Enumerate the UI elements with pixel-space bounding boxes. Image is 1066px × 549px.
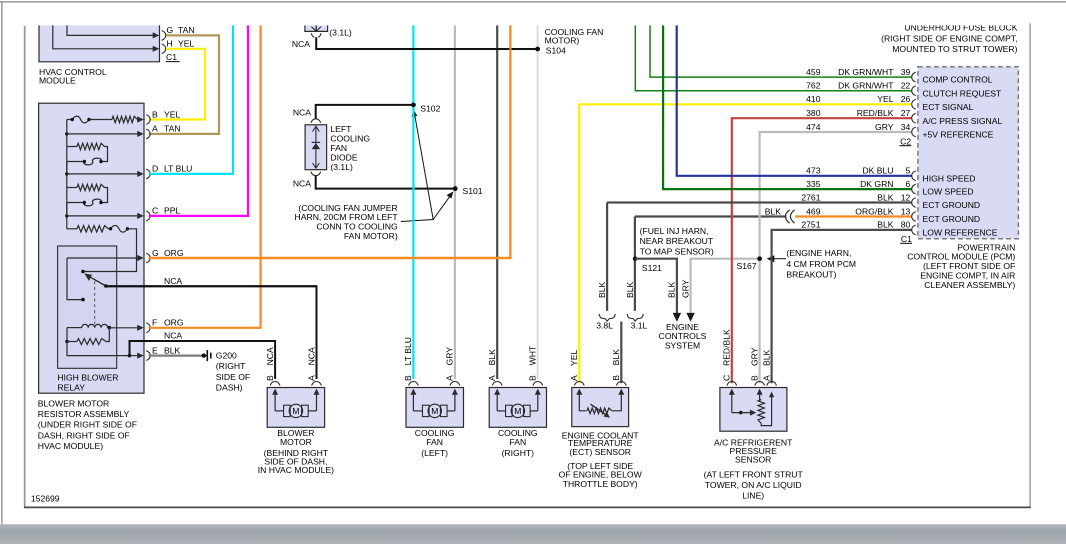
svg-text:ECT SIGNAL: ECT SIGNAL [923,102,974,112]
svg-text:80: 80 [901,220,911,230]
wire DK GRN/WHT 459 PCM39 [650,23,912,77]
pin arc under connector [311,33,314,37]
svg-text:B: B [749,375,759,381]
wire TAN [149,35,219,133]
PCM pin 6 [912,184,916,194]
splice S102 [411,103,416,108]
svg-text:DASH): DASH) [216,383,243,393]
resistor R2 [67,146,77,148]
svg-text:COOLING: COOLING [330,133,370,143]
svg-text:LOW SPEED: LOW SPEED [923,187,974,197]
svg-text:C: C [722,375,732,381]
svg-text:ECT GROUND: ECT GROUND [923,214,981,224]
svg-text:(FUEL INJ HARN,: (FUEL INJ HARN, [640,226,709,236]
connector (3.1L) top [305,21,328,31]
svg-text:M: M [514,406,521,416]
PCM pin 13 [912,212,916,222]
HVAC CONTROL MODULE U-HVAC [39,21,160,61]
svg-text:762: 762 [806,81,821,91]
wire DK BLU 473 PCM5 [677,23,912,175]
svg-text:RED/BLK: RED/BLK [722,329,732,366]
svg-text:FAN: FAN [426,437,443,447]
wire HVAC pin G internal [67,23,154,35]
svg-text:C1: C1 [901,234,912,244]
svg-text:459: 459 [806,67,821,77]
svg-text:NCA: NCA [164,331,182,341]
svg-text:M: M [431,406,438,416]
window left border [1,2,3,524]
high blower relay box [58,246,117,368]
svg-text:DK GRN/WHT: DK GRN/WHT [838,67,894,77]
svg-text:DK GRN/WHT: DK GRN/WHT [838,81,894,91]
svg-text:NCA: NCA [265,347,275,365]
svg-text:(3.1L): (3.1L) [329,27,352,37]
wire DK GRN 335 PCM6 [663,23,912,189]
svg-text:S121: S121 [642,263,662,273]
cooling fan right motor M3 [489,388,546,428]
svg-text:HVAC MODULE): HVAC MODULE) [38,441,103,451]
pin arc resistor assembly [146,129,150,139]
PCM pin 39 [912,72,916,82]
svg-text:C1: C1 [166,52,177,62]
svg-text:39: 39 [901,67,911,77]
wire BLK pin E to G200 [149,355,204,357]
wire BLK 2761 vertical to 3.8L [606,203,608,311]
pin H of HVAC [162,44,166,54]
wire ORG to pin F [149,23,261,327]
wire row D [67,173,137,175]
motor symbol [289,404,302,417]
wire LT BLU cooling fan left B [412,23,414,379]
svg-text:BLK: BLK [597,281,607,298]
splice S167 [757,256,762,261]
svg-text:YEL: YEL [164,109,180,119]
svg-text:(ENGINE HARN,: (ENGINE HARN, [786,248,851,258]
wire BLK S121 vertical to 3.1L [634,217,636,311]
svg-text:DASH, RIGHT SIDE OF: DASH, RIGHT SIDE OF [38,430,130,440]
wire NCA diode top to S102 [316,105,414,119]
svg-text:5: 5 [906,166,911,176]
pin arc resistor assembly [146,115,150,125]
svg-text:G: G [167,25,174,35]
svg-text:335: 335 [806,179,821,189]
svg-text:G200: G200 [216,351,237,361]
svg-text:A: A [306,375,316,381]
svg-text:474: 474 [806,122,821,132]
svg-text:(RIGHT SIDE OF ENGINE COMPT,: (RIGHT SIDE OF ENGINE COMPT, [881,33,1017,43]
svg-text:MOTOR: MOTOR [280,437,312,447]
relay switch blade [88,276,106,286]
relay bottom bus to pin E [67,342,130,356]
svg-text:LEFT: LEFT [330,124,352,134]
resistor R4 bottom chain [67,228,77,230]
pin arc resistor assembly [146,351,150,361]
svg-text:LINE): LINE) [742,491,764,501]
splice S121 [633,256,638,261]
svg-text:473: 473 [806,166,821,176]
svg-text:A: A [445,375,455,381]
svg-text:NCA: NCA [164,276,182,286]
svg-text:SENSOR: SENSOR [735,454,771,464]
wire BLK 2751 PCM80 to AC A [772,230,912,383]
svg-text:3.1L: 3.1L [631,321,648,331]
wire HVAC pin H internal [53,23,154,48]
wire GRY S167 to engine controls arrow [691,259,760,314]
window top border [0,1,1066,3]
svg-text:CLEANER ASSEMBLY): CLEANER ASSEMBLY) [924,280,1015,290]
svg-text:A/C PRESS SIGNAL: A/C PRESS SIGNAL [923,116,1003,126]
svg-text:IN HVAC MODULE): IN HVAC MODULE) [258,465,334,475]
svg-text:GRY: GRY [875,122,894,132]
wire LT BLU from pin D [149,23,233,174]
svg-text:BLK: BLK [487,349,497,366]
svg-text:A: A [152,124,158,134]
svg-text:BLK: BLK [765,206,782,216]
PCM pin 34 [912,127,916,137]
svg-text:YEL: YEL [569,350,579,366]
svg-text:ORG/BLK: ORG/BLK [855,206,893,216]
svg-text:S101: S101 [463,186,483,196]
svg-text:(AT LEFT FRONT STRUT: (AT LEFT FRONT STRUT [704,469,804,479]
A/C refrigerant pressure sensor box [720,388,787,432]
svg-text:GRY: GRY [680,279,690,298]
resistor network internal bus [66,120,68,147]
svg-text:B: B [265,375,275,381]
svg-text:THROTTLE BODY): THROTTLE BODY) [563,479,638,489]
relay switch wire pin G [67,257,137,259]
svg-text:B: B [611,375,621,381]
svg-text:NEAR BREAKOUT: NEAR BREAKOUT [640,236,714,246]
svg-text:12: 12 [901,192,911,202]
thermal limiter F2 [84,158,102,165]
blower motor M1 [267,388,324,428]
svg-text:S102: S102 [420,104,440,114]
AC sensor internal [731,393,733,413]
pin arc resistor assembly [146,253,150,263]
svg-text:BLK: BLK [164,345,181,355]
blower motor resistor assembly box [39,103,144,393]
svg-text:GRY: GRY [445,347,455,366]
svg-text:A: A [569,375,579,381]
svg-text:BLK: BLK [611,349,621,366]
inline connector on 469 [785,210,789,223]
PCM box [918,67,1019,239]
pin arc resistor assembly [146,211,150,221]
svg-text:MODULE: MODULE [39,76,76,86]
svg-text:22: 22 [901,81,911,91]
svg-text:ORG: ORG [164,248,184,258]
svg-text:2751: 2751 [801,220,820,230]
svg-text:M: M [292,406,299,416]
thermistor arrow [591,404,608,415]
relay resistor [66,328,68,342]
wire BLK 469 left segment [635,215,786,217]
PCM pin 12 [912,198,916,208]
pin arc resistor assembly [146,169,150,179]
svg-text:TO MAP SENSOR): TO MAP SENSOR) [640,247,714,257]
ECT internal [579,393,586,411]
svg-text:34: 34 [901,122,911,132]
relay coil [67,327,82,329]
svg-text:C: C [152,206,158,216]
svg-text:(LEFT): (LEFT) [421,448,448,458]
svg-text:DIODE: DIODE [330,153,357,163]
svg-text:PPL: PPL [164,206,180,216]
PCM pin 5 [912,171,916,181]
engine harn caption + arrow [774,258,786,260]
arrow to engine controls BLK [673,313,681,322]
wire overlap redraw: NCA relay to motor A [106,285,317,287]
schematic frame left [24,26,26,508]
svg-text:152699: 152699 [31,493,60,503]
svg-text:A: A [761,375,771,381]
svg-text:COMP CONTROL: COMP CONTROL [923,75,993,85]
wire pin F from coil [109,327,137,329]
splice S104 [535,47,540,52]
svg-text:CLUTCH REQUEST: CLUTCH REQUEST [923,88,1003,98]
left cooling fan diode box [305,125,327,170]
wire BLK brace to ECT B [620,322,622,384]
svg-text:RESISTOR ASSEMBLY: RESISTOR ASSEMBLY [38,409,130,419]
thermal limiter F1 row B [67,119,73,121]
resistor R3 [67,187,77,189]
wire BLK S121 to engine controls arrow [635,259,677,314]
relay actuation dashed link [94,281,96,324]
ground G200 [202,353,206,357]
arrow to engine controls GRY [686,313,694,322]
svg-text:NCA: NCA [293,179,311,189]
svg-text:BLK: BLK [877,220,894,230]
svg-text:469: 469 [806,206,821,216]
NCA wire from E-bus to blower motor B [130,341,276,379]
svg-text:YEL: YEL [877,94,893,104]
wire NCA to S104 [316,37,537,49]
pin arc resistor assembly [146,323,150,333]
svg-text:LOW REFERENCE: LOW REFERENCE [923,228,998,238]
svg-text:(RIGHT: (RIGHT [216,361,246,371]
svg-text:G: G [152,248,159,258]
svg-text:E: E [152,345,158,355]
PCM pin 27 [912,113,916,123]
svg-text:3.8L: 3.8L [596,321,613,331]
svg-text:TOWER, ON A/C LIQUID: TOWER, ON A/C LIQUID [705,480,802,490]
svg-text:A: A [487,375,497,381]
svg-text:BLOWER MOTOR: BLOWER MOTOR [38,398,109,408]
svg-text:FAN: FAN [509,437,526,447]
thermal limiter F3 [84,199,102,206]
svg-text:GRY: GRY [749,347,759,366]
svg-text:6: 6 [906,179,911,189]
pin G of HVAC [162,31,166,41]
PCM pin 22 [912,86,916,96]
cooling fan left motor M2 [406,388,464,428]
svg-text:FAN MOTOR): FAN MOTOR) [344,231,398,241]
diode symbol D1 [315,127,317,168]
ECT sensor box [572,388,629,427]
wire BLK cooling fan right A [496,23,498,379]
svg-text:BREAKOUT): BREAKOUT) [786,269,836,279]
brace 3.1L [627,314,643,321]
motor symbol [428,404,441,417]
wire WHT cooling fan right B [536,23,538,379]
svg-text:MOTOR): MOTOR) [545,36,580,46]
svg-text:B: B [403,375,413,381]
motor symbol [511,404,524,417]
schematic frame right [1029,23,1031,507]
svg-text:B: B [152,109,158,119]
svg-text:LT BLU: LT BLU [164,164,192,174]
caption pointer lines [401,114,433,221]
svg-text:ECT GROUND: ECT GROUND [923,200,981,210]
svg-text:(3.1L): (3.1L) [330,162,353,172]
svg-text:NCA: NCA [306,347,316,365]
brace 3.8L [599,314,615,321]
svg-text:NCA: NCA [293,108,311,118]
svg-text:SIDE OF: SIDE OF [216,372,250,382]
wire row A [67,133,137,135]
svg-text:BLK: BLK [761,349,771,366]
thermal limiter F4 [109,228,111,230]
wire chain to relay upper contact [83,229,137,272]
svg-text:(UNDER RIGHT SIDE OF: (UNDER RIGHT SIDE OF [38,420,137,430]
svg-text:SYSTEM: SYSTEM [665,340,700,350]
svg-text:+5V REFERENCE: +5V REFERENCE [923,130,994,140]
svg-text:LT BLU: LT BLU [403,337,413,365]
svg-text:HIGH SPEED: HIGH SPEED [923,173,976,183]
svg-text:FAN: FAN [330,143,347,153]
svg-text:YEL: YEL [178,39,194,49]
wire NCA from relay to blower motor A [106,286,317,379]
svg-text:F: F [152,318,157,328]
svg-text:H: H [167,39,173,49]
wire YEL ECT A to PCM 26 [579,104,912,383]
svg-text:27: 27 [901,108,911,118]
resistor R1 row B [112,116,138,122]
wire GRY cooling fan left A [454,23,456,379]
wire YEL [149,49,205,120]
svg-text:MOUNTED TO STRUT TOWER): MOUNTED TO STRUT TOWER) [892,44,1017,54]
wire GRY PCM34 through S167 to AC B [760,132,912,383]
svg-text:BLK: BLK [667,281,677,298]
svg-text:TAN: TAN [178,25,195,35]
svg-text:4 CM FROM PCM: 4 CM FROM PCM [786,259,856,269]
svg-text:DK BLU: DK BLU [862,166,893,176]
svg-text:(ECT) SENSOR: (ECT) SENSOR [569,447,631,457]
bottom gray band [0,524,1066,544]
svg-text:DK GRN: DK GRN [860,179,893,189]
wire ORG/BLK 469 PCM13 [795,215,912,217]
svg-text:C2: C2 [900,136,911,146]
wire NCA diode bottom to S101 [316,175,456,188]
svg-text:S104: S104 [546,45,566,55]
svg-text:WHT: WHT [527,345,537,365]
svg-text:13: 13 [901,206,911,216]
svg-text:2761: 2761 [801,192,820,202]
PCM pin 80 [912,225,916,235]
svg-text:TAN: TAN [164,124,181,134]
wire row C [67,215,137,217]
svg-text:NCA: NCA [292,39,310,49]
svg-text:S167: S167 [737,261,757,271]
svg-text:B: B [527,375,537,381]
svg-text:BLK: BLK [625,281,635,298]
wire PPL from pin C [149,23,248,216]
wire DK GRN/WHT 762 PCM22 [635,23,912,90]
svg-text:D: D [152,164,158,174]
svg-text:RED/BLK: RED/BLK [857,108,894,118]
PCM pin 26 [912,99,916,109]
svg-text:380: 380 [806,108,821,118]
svg-text:RELAY: RELAY [57,383,85,393]
wire BLK 2761 PCM12 [607,201,912,203]
schematic frame bottom [24,506,1031,508]
svg-text:HIGH BLOWER: HIGH BLOWER [57,372,118,382]
wire overlap redraw: NCA to S104 [316,48,537,50]
svg-text:BLK: BLK [877,192,894,202]
svg-text:410: 410 [806,94,821,104]
svg-text:(RIGHT): (RIGHT) [502,448,535,458]
wire RED/BLK PCM27 to AC C [732,118,912,383]
wire ORG from pin G [149,23,511,258]
splice S101 [453,186,458,191]
svg-text:ORG: ORG [164,318,184,328]
svg-text:26: 26 [901,94,911,104]
wire overlap redraw: ORG G [149,23,511,258]
